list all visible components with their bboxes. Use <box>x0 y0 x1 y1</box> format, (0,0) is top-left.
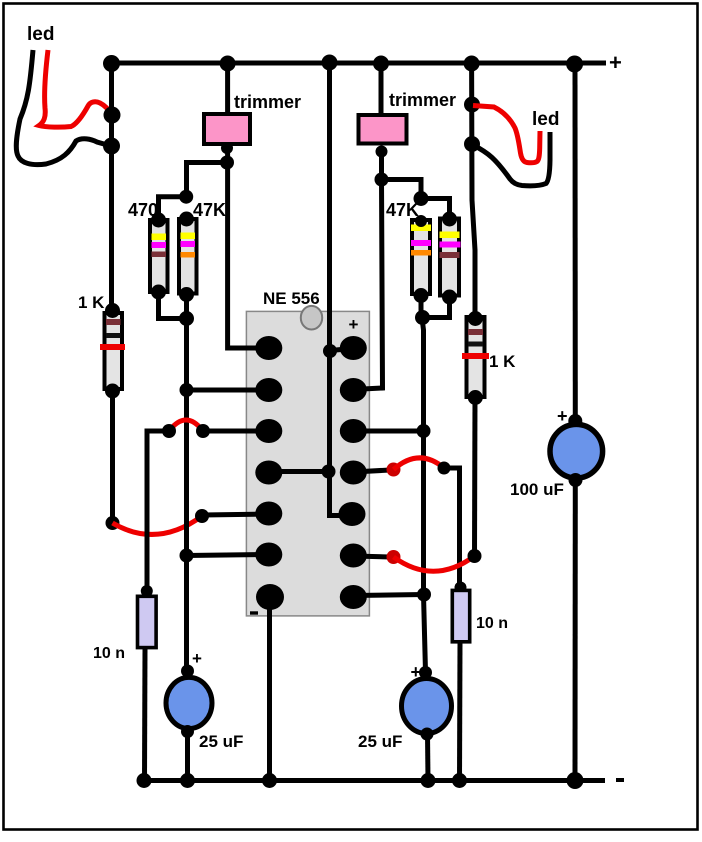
LED left red lead wire <box>39 50 112 127</box>
wire: IC right pin3 to long run <box>353 429 423 434</box>
node: 470/47K bottoms joined <box>179 311 194 326</box>
IC left pin 1 <box>255 336 282 360</box>
IC right pin 6 <box>340 544 367 568</box>
trimmer 1 body <box>204 114 250 144</box>
wire: 47K left bottom long run down to 25uF left <box>184 295 189 672</box>
red jumper wire B (pin6 row to 1K right) <box>394 556 475 571</box>
node: inner wire at pin1 row <box>323 344 337 358</box>
wire: jumper C left down to 10n left <box>147 431 169 591</box>
svg-text:47K: 47K <box>386 200 419 220</box>
node: top rail to 100uF column <box>566 56 583 73</box>
svg-text:+: + <box>192 649 202 668</box>
IC left pin 4 <box>255 461 282 485</box>
IC left pin 2 <box>255 378 282 402</box>
node: jumper B right end <box>468 549 482 563</box>
wire: branch to resistor pair top <box>187 163 228 197</box>
wire: 25uF right to bottom rail <box>425 734 431 780</box>
wire: 100uF to bottom rail <box>573 480 578 780</box>
node: junction to IC left pin6 <box>180 549 194 563</box>
svg-text:10 n: 10 n <box>93 645 125 662</box>
svg-text:+: + <box>349 315 359 334</box>
wire: trimmer 1 down to IC left pin1 <box>228 145 269 348</box>
node: red jumper B start (red) <box>387 550 401 564</box>
wire: IC left pin7 to bottom rail <box>267 597 272 780</box>
wire: jumper C to IC left pin3 <box>203 429 269 434</box>
svg-text:+: + <box>609 50 622 75</box>
svg-text:100 uF: 100 uF <box>510 480 564 499</box>
node: top rail to LED/1K column <box>103 55 120 72</box>
wire: top +V rail <box>107 61 606 66</box>
node: jumper C left end <box>162 424 176 438</box>
wire: junction to right 470 top <box>421 199 450 220</box>
svg-text:25 uF: 25 uF <box>358 732 402 751</box>
svg-text:25 uF: 25 uF <box>199 732 243 751</box>
node: black LED lead joint <box>103 138 120 155</box>
IC NE556 body <box>246 311 369 616</box>
IC left pin 6 <box>255 543 282 567</box>
node: jumper A right end <box>438 462 451 475</box>
node: bottom rail at 25uF left <box>180 773 195 788</box>
svg-text:trimmer: trimmer <box>234 92 301 112</box>
wire: 1K left bottom down to jumper <box>110 391 115 523</box>
node: red LED lead joint (right) <box>464 97 480 113</box>
wire: rail to trimmer 1 <box>225 63 230 113</box>
svg-text:10 n: 10 n <box>476 615 508 632</box>
LED left black lead wire <box>16 50 111 165</box>
wire: branch to right pair junction <box>382 180 422 199</box>
node: top rail to LED right column <box>464 56 480 72</box>
capacitor 100uF <box>550 414 603 487</box>
node: jumper D left end <box>106 516 120 530</box>
capacitor 25uF right <box>402 666 452 741</box>
svg-text:led: led <box>27 24 54 45</box>
svg-text:NE 556: NE 556 <box>263 289 320 308</box>
wire: IC right pin7 to long run <box>353 595 424 596</box>
IC right pin 1 <box>340 336 367 360</box>
node: black LED lead joint (right) <box>464 136 480 152</box>
node: bottom rail at 100uF <box>567 772 584 789</box>
resistor 1K right body <box>462 311 489 405</box>
node: right pair bottoms joined <box>415 310 430 325</box>
wire: right 470 bottom elbow <box>424 297 450 318</box>
wire: IC right pin6 stub <box>353 556 390 557</box>
node: branch to 470/47K pair <box>220 156 234 170</box>
resistor 47K right <box>411 215 431 303</box>
node: red LED lead joint <box>104 107 121 124</box>
resistor 470 left <box>150 213 168 300</box>
IC right pin 2 <box>340 378 367 402</box>
red jumper wire A (pin4 row to 10n right) <box>394 458 445 470</box>
wire: jumper A to 10n right <box>444 468 460 588</box>
wire: to IC left pin2 <box>187 388 270 393</box>
wire: 25uF left to bottom rail <box>185 731 190 780</box>
node: top rail to trimmer 1 <box>220 56 236 72</box>
LED right black lead wire <box>473 132 550 186</box>
IC right pin 4 <box>340 461 367 485</box>
node: bottom rail at 10n left <box>137 773 152 788</box>
wire: IC left pin4 to inner wire <box>269 469 330 474</box>
svg-text:+: + <box>557 406 568 426</box>
node: top rail to inner supply wire <box>322 55 338 71</box>
node: top rail to trimmer 2 <box>373 56 389 72</box>
svg-text:led: led <box>532 109 559 130</box>
IC right pin 7 <box>340 585 367 609</box>
node: inner wire at pin4 row <box>322 465 336 479</box>
resistor 47K left <box>179 212 197 303</box>
node: red jumper A start (red) <box>387 463 401 477</box>
wire: rail down to 1K (left) <box>109 63 114 311</box>
red jumper wire C (10n left to pin3) <box>169 420 203 431</box>
wire: trimmer 2 down to IC right pin2 <box>353 146 383 390</box>
node: jumper D right end <box>195 509 209 523</box>
capacitor 10n left <box>138 585 157 648</box>
wire: 1K right bottom down to jumper B <box>472 398 478 557</box>
capacitor 25uF left <box>166 665 212 739</box>
IC left pin 3 <box>255 419 282 443</box>
IC notch <box>301 306 322 330</box>
IC left pin 5 <box>255 502 282 526</box>
trimmer 2 body <box>359 115 407 144</box>
wire: stub to IC right pin1 <box>330 349 347 351</box>
node: long run at pin3 row <box>417 424 431 438</box>
wire: rail down to 1K right <box>472 63 475 320</box>
IC right pin 5 <box>339 502 366 526</box>
wire: rail to trimmer 2 <box>379 63 384 114</box>
wire: rail down to 100uF <box>573 63 578 421</box>
wire: right 47K bottom long run down to 25uF right <box>421 296 426 673</box>
node: right pair top junction <box>414 191 429 206</box>
svg-text:trimmer: trimmer <box>389 90 456 110</box>
wire: bottom 0V rail <box>140 778 605 783</box>
wire: 10n right to bottom rail <box>457 643 463 780</box>
wire: junction to 470 top <box>159 197 187 220</box>
svg-text:+: + <box>411 662 422 682</box>
label - inside IC <box>250 611 258 614</box>
red jumper wire D (1K left to pin5 row) <box>113 516 203 534</box>
node: junction to IC left pin2 <box>180 383 194 397</box>
wire: inner supply run from rail down to right pin5 <box>330 63 342 516</box>
node: branch to right resistor pair <box>375 173 389 187</box>
IC right pin 3 <box>340 419 367 443</box>
IC left pin 7 <box>256 584 284 610</box>
resistor 1K left body <box>100 303 125 399</box>
node: jumper C right end <box>196 424 210 438</box>
node: resistor pair top junction <box>179 190 193 204</box>
node: below trimmer 2 <box>376 146 388 158</box>
node: bottom rail at 10n right <box>452 773 467 788</box>
label - (bottom right supply) <box>616 778 624 782</box>
node: bottom rail at pin7 left <box>262 773 277 788</box>
node: below trimmer 1 <box>221 142 233 154</box>
wire: jumper D to IC left pin5 <box>202 514 269 515</box>
svg-text:1 K: 1 K <box>78 293 105 312</box>
wire: IC right pin4 stub <box>353 470 390 472</box>
wire: to IC left pin6 <box>187 555 270 556</box>
svg-text:1 K: 1 K <box>489 352 516 371</box>
wire: 10n left to bottom rail <box>142 649 148 780</box>
node: long run at pin7 row <box>417 588 431 602</box>
wire: 470 bottom elbow to junction <box>159 292 187 319</box>
LED right red lead wire <box>473 106 540 163</box>
resistor 470 right (unlabeled) <box>440 212 461 305</box>
node: bottom rail at 25uF right <box>421 773 436 788</box>
capacitor 10n right <box>452 582 469 642</box>
